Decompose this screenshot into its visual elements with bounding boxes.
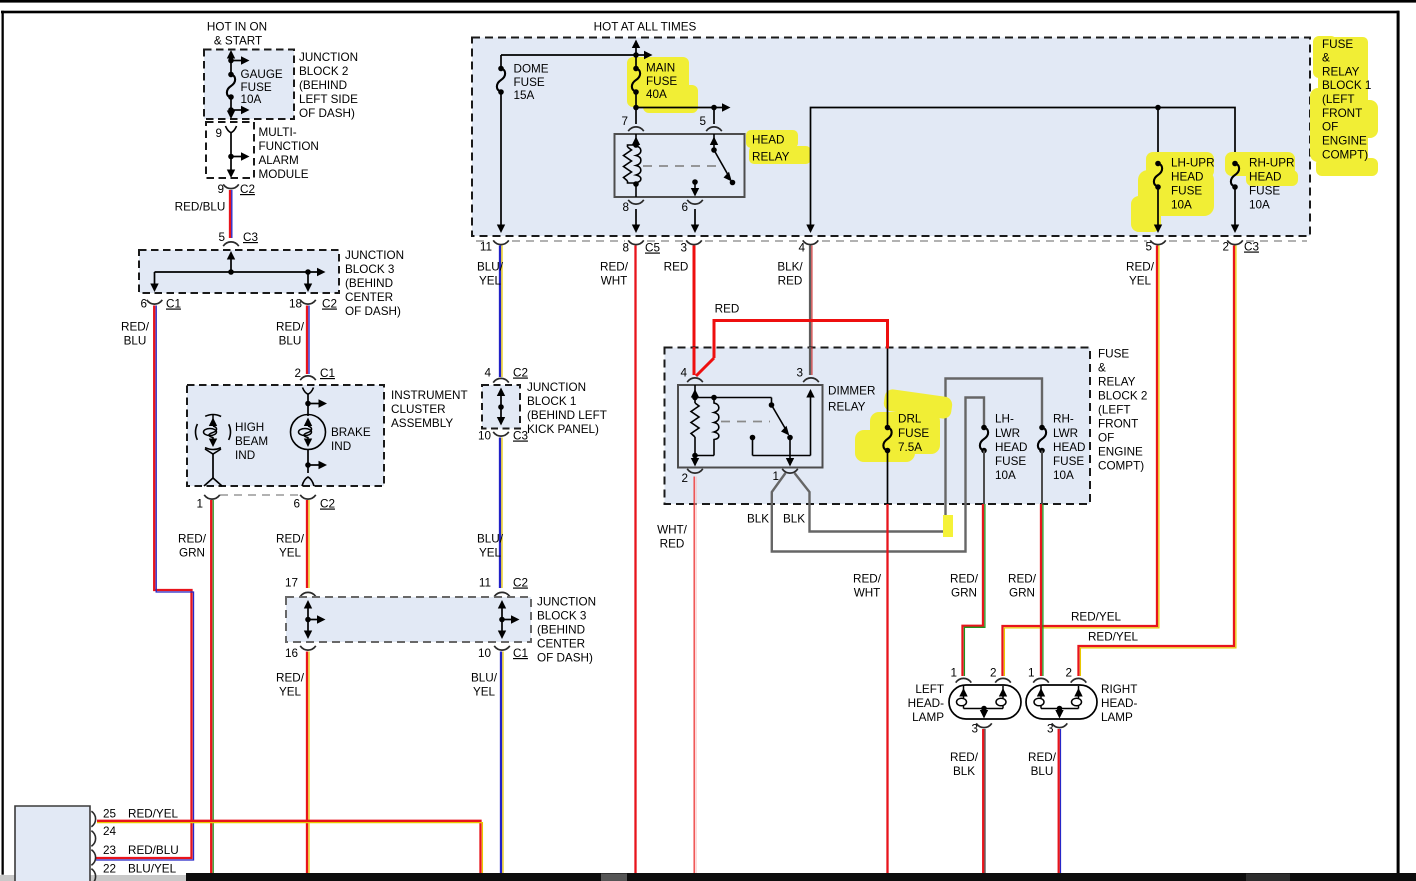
svg-text:ENGINE: ENGINE bbox=[1098, 446, 1143, 459]
svg-text:9: 9 bbox=[215, 127, 222, 140]
svg-text:25: 25 bbox=[103, 808, 117, 821]
svg-text:22: 22 bbox=[103, 863, 116, 876]
frame top border bbox=[1, 11, 1399, 14]
highlight leftover mark bbox=[943, 515, 953, 537]
svg-text:3: 3 bbox=[796, 367, 803, 380]
svg-text:C2: C2 bbox=[320, 498, 335, 511]
svg-text:FUSE: FUSE bbox=[514, 76, 545, 89]
svg-text:RED/: RED/ bbox=[276, 672, 305, 685]
svg-text:(BEHIND: (BEHIND bbox=[345, 277, 393, 290]
svg-text:WHT: WHT bbox=[601, 275, 628, 288]
connector C2 dashed line under cluster bbox=[220, 494, 299, 496]
svg-text:ALARM: ALARM bbox=[259, 154, 299, 167]
svg-text:1: 1 bbox=[950, 667, 957, 680]
svg-text:LH-UPR: LH-UPR bbox=[1171, 157, 1215, 170]
head relay pin 5 arc bbox=[706, 127, 722, 131]
svg-text:10A: 10A bbox=[241, 93, 262, 106]
svg-text:16: 16 bbox=[285, 647, 298, 660]
svg-text:MODULE: MODULE bbox=[259, 168, 309, 181]
svg-text:RED/: RED/ bbox=[600, 261, 629, 274]
junction block 3 upper box bbox=[139, 250, 339, 293]
svg-text:& START: & START bbox=[214, 35, 262, 48]
svg-text:YEL: YEL bbox=[279, 686, 302, 699]
fuse & relay block 1 box bbox=[472, 38, 1310, 237]
svg-text:YEL: YEL bbox=[479, 275, 502, 288]
svg-text:FUSE: FUSE bbox=[1098, 348, 1129, 361]
JB3 lower internal wire right bbox=[502, 604, 514, 634]
svg-text:YEL: YEL bbox=[279, 547, 302, 560]
svg-text:FUSE: FUSE bbox=[1322, 38, 1353, 51]
svg-text:RED/: RED/ bbox=[950, 751, 979, 764]
svg-text:3: 3 bbox=[1047, 723, 1054, 736]
svg-text:FUSE: FUSE bbox=[1171, 185, 1202, 198]
pin 22 bbox=[91, 869, 95, 881]
DRL fuse wire upper bbox=[887, 349, 889, 428]
svg-text:RED/BLU: RED/BLU bbox=[175, 201, 226, 214]
svg-text:RED: RED bbox=[778, 275, 803, 288]
highlight head relay label bbox=[746, 130, 811, 164]
svg-text:&: & bbox=[1098, 362, 1106, 375]
svg-text:HOT AT ALL TIMES: HOT AT ALL TIMES bbox=[594, 21, 697, 34]
svg-text:BLOCK 1: BLOCK 1 bbox=[527, 395, 576, 408]
wire RED segment inside block 2 bbox=[693, 347, 696, 375]
main fuse wire bbox=[636, 44, 723, 124]
svg-text:ASSEMBLY: ASSEMBLY bbox=[391, 417, 453, 430]
svg-text:LWR: LWR bbox=[1053, 427, 1078, 440]
instrument cluster assembly box bbox=[187, 385, 384, 486]
dome fuse symbol bbox=[497, 69, 505, 92]
svg-text:6: 6 bbox=[681, 201, 688, 214]
svg-text:CENTER: CENTER bbox=[537, 638, 585, 651]
JB1 internal wire bbox=[500, 391, 502, 421]
svg-text:6: 6 bbox=[140, 298, 147, 311]
pin 25 bbox=[91, 811, 95, 827]
svg-text:INSTRUMENT: INSTRUMENT bbox=[391, 389, 468, 402]
bus wire to upper head fuses bbox=[811, 108, 1236, 227]
wire RED/GRN (LH-LWR to left headlamp pin 1) bbox=[963, 504, 985, 676]
svg-text:LEFT SIDE: LEFT SIDE bbox=[299, 93, 358, 106]
svg-text:BLOCK 1: BLOCK 1 bbox=[1322, 79, 1371, 92]
bottom gray strip bbox=[0, 875, 186, 881]
svg-text:FRONT: FRONT bbox=[1098, 418, 1138, 431]
wire BLU/YEL (JB1 to JB3 lower pin 11) bbox=[500, 438, 502, 589]
svg-text:YEL: YEL bbox=[479, 547, 502, 560]
svg-text:CLUSTER: CLUSTER bbox=[391, 403, 446, 416]
svg-text:6: 6 bbox=[293, 498, 300, 511]
wire BLU/YEL (pin 11 to JB1) bbox=[500, 246, 502, 378]
svg-text:JUNCTION: JUNCTION bbox=[345, 249, 404, 262]
svg-text:40A: 40A bbox=[646, 88, 667, 101]
svg-text:RED/: RED/ bbox=[950, 573, 979, 586]
svg-text:4: 4 bbox=[484, 367, 491, 380]
svg-text:3: 3 bbox=[680, 242, 687, 255]
svg-text:RELAY: RELAY bbox=[828, 401, 866, 414]
svg-text:RED/: RED/ bbox=[121, 321, 150, 334]
svg-text:C2: C2 bbox=[513, 367, 528, 380]
svg-text:RED/: RED/ bbox=[276, 321, 305, 334]
svg-text:18: 18 bbox=[289, 298, 302, 311]
wire RED/BLU (right headlamp pin3 to bottom) bbox=[1059, 729, 1061, 873]
connector dashed line under block 1 bbox=[476, 240, 1307, 242]
svg-text:GRN: GRN bbox=[179, 547, 205, 560]
wire BLK right branch (pin1 to RH-LWR fuse) bbox=[795, 379, 1043, 532]
module internal wire bbox=[226, 126, 237, 133]
dimmer relay switch side bbox=[714, 392, 811, 462]
svg-text:BLK: BLK bbox=[783, 513, 805, 526]
svg-text:BLU: BLU bbox=[279, 335, 302, 348]
svg-text:7.5A: 7.5A bbox=[898, 441, 922, 454]
svg-text:BLU/: BLU/ bbox=[477, 533, 504, 546]
wire RED/YEL (pin16 to bottom) bbox=[307, 652, 309, 874]
svg-text:LWR: LWR bbox=[995, 427, 1020, 440]
left headlamp pin 3 bbox=[976, 723, 992, 727]
svg-text:FUSE: FUSE bbox=[1053, 455, 1084, 468]
svg-text:7: 7 bbox=[621, 115, 628, 128]
wire RED/BLU left branch (pin6 to lower left) bbox=[96, 306, 194, 861]
wire BLU/YEL (pin10 to bottom) bbox=[501, 652, 503, 874]
svg-text:C3: C3 bbox=[513, 430, 528, 443]
wire RED/YEL (pin 5 to left headlamp pin 2) bbox=[1003, 246, 1159, 677]
wire RED/WHT (DRL to bottom) bbox=[886, 504, 888, 873]
svg-text:BEAM: BEAM bbox=[235, 435, 268, 448]
svg-text:OF: OF bbox=[1098, 432, 1114, 445]
wire RED/GRN (pin1 to bottom) bbox=[211, 500, 213, 873]
svg-text:RELAY: RELAY bbox=[1098, 376, 1136, 389]
right headlamp pin 3 bbox=[1052, 723, 1068, 727]
svg-text:C1: C1 bbox=[166, 298, 181, 311]
svg-text:DRL: DRL bbox=[898, 413, 922, 426]
wire BLK/RED segment inside block 2 bbox=[810, 347, 812, 375]
highlight LH-UPR head fuse bbox=[1131, 152, 1214, 232]
wire RED (pin 3 to dimmer relay pin 4) bbox=[693, 246, 696, 376]
svg-text:RED/YEL: RED/YEL bbox=[1088, 631, 1139, 644]
svg-text:C3: C3 bbox=[243, 231, 258, 244]
svg-text:HEAD: HEAD bbox=[1053, 441, 1085, 454]
right headlamp connector bbox=[1026, 685, 1097, 719]
RH-UPR head fuse symbol bbox=[1231, 164, 1239, 187]
svg-text:FUSE: FUSE bbox=[995, 455, 1026, 468]
svg-text:5: 5 bbox=[699, 115, 706, 128]
svg-text:RED: RED bbox=[664, 261, 689, 274]
JB3 lower internal wire left bbox=[308, 604, 320, 634]
svg-text:10A: 10A bbox=[1249, 199, 1270, 212]
frame right border bbox=[1397, 11, 1400, 875]
svg-text:1: 1 bbox=[1028, 667, 1035, 680]
wire RED/GRN (RH-LWR to right headlamp pin 1) bbox=[1041, 504, 1043, 676]
svg-text:OF DASH): OF DASH) bbox=[537, 652, 593, 665]
wire WHT/RED (pin 2 to bottom) bbox=[694, 477, 696, 874]
head relay coil side bbox=[624, 134, 641, 197]
wire RED/WHT (pin 8 C5 to bottom) bbox=[634, 246, 636, 874]
svg-text:RH-UPR: RH-UPR bbox=[1249, 157, 1294, 170]
svg-text:DOME: DOME bbox=[514, 63, 549, 76]
svg-text:&: & bbox=[1322, 52, 1330, 65]
svg-text:BLOCK 2: BLOCK 2 bbox=[299, 65, 348, 78]
bottom black bar bbox=[186, 873, 1416, 881]
junction block 3 lower box bbox=[286, 597, 531, 642]
wire RED diagonal into pin 4 bbox=[696, 358, 714, 376]
junction block 2 box bbox=[204, 50, 294, 120]
svg-text:RED/: RED/ bbox=[853, 573, 882, 586]
wire RED/BLU (pin18 to cluster pin2) bbox=[307, 306, 309, 375]
svg-text:WHT: WHT bbox=[854, 587, 881, 600]
svg-text:5: 5 bbox=[218, 231, 225, 244]
fuse & relay block 2 box bbox=[665, 348, 1091, 505]
svg-text:GRN: GRN bbox=[1009, 587, 1035, 600]
svg-text:15A: 15A bbox=[514, 89, 535, 102]
highlight RH-UPR head fuse bbox=[1225, 152, 1298, 186]
svg-text:FUSE: FUSE bbox=[898, 427, 929, 440]
svg-text:HEAD-: HEAD- bbox=[1101, 697, 1137, 710]
svg-text:C2: C2 bbox=[322, 298, 337, 311]
svg-text:GAUGE: GAUGE bbox=[241, 68, 283, 81]
svg-text:BLK: BLK bbox=[747, 513, 769, 526]
svg-text:RELAY: RELAY bbox=[752, 151, 790, 164]
highlight fuse & relay block 1 label bbox=[1310, 36, 1378, 176]
svg-text:HEAD: HEAD bbox=[1171, 171, 1203, 184]
svg-text:C2: C2 bbox=[513, 577, 528, 590]
svg-text:DIMMER: DIMMER bbox=[828, 385, 875, 398]
head relay switch side bbox=[695, 134, 730, 190]
svg-text:LEFT: LEFT bbox=[915, 683, 944, 696]
top black bar bbox=[0, 0, 1416, 3]
LH-UPR head fuse symbol bbox=[1154, 164, 1162, 187]
svg-text:8: 8 bbox=[622, 242, 629, 255]
svg-text:10: 10 bbox=[478, 647, 492, 660]
svg-text:8: 8 bbox=[622, 201, 629, 214]
svg-text:BLU: BLU bbox=[124, 335, 147, 348]
svg-text:MAIN: MAIN bbox=[646, 62, 675, 75]
svg-text:2: 2 bbox=[1065, 667, 1072, 680]
svg-text:17: 17 bbox=[285, 577, 298, 590]
svg-text:4: 4 bbox=[680, 367, 687, 380]
head relay pin 7 arc bbox=[628, 127, 644, 131]
svg-text:RED: RED bbox=[715, 303, 740, 316]
svg-text:JUNCTION: JUNCTION bbox=[527, 381, 586, 394]
svg-text:FUNCTION: FUNCTION bbox=[259, 140, 319, 153]
svg-text:HEAD-: HEAD- bbox=[908, 697, 944, 710]
svg-text:C5: C5 bbox=[645, 242, 660, 255]
svg-text:FRONT: FRONT bbox=[1322, 107, 1362, 120]
svg-text:OF DASH): OF DASH) bbox=[345, 305, 401, 318]
svg-text:BLOCK 2: BLOCK 2 bbox=[1098, 390, 1147, 403]
svg-text:1: 1 bbox=[196, 498, 203, 511]
svg-text:KICK PANEL): KICK PANEL) bbox=[527, 423, 599, 436]
highlight main fuse bbox=[627, 57, 698, 113]
svg-text:BLU/: BLU/ bbox=[477, 261, 504, 274]
svg-text:RELAY: RELAY bbox=[1322, 66, 1360, 79]
svg-text:10A: 10A bbox=[1171, 199, 1192, 212]
left headlamp connector bbox=[949, 685, 1021, 719]
svg-text:24: 24 bbox=[103, 825, 117, 838]
svg-text:HEAD: HEAD bbox=[1249, 171, 1281, 184]
svg-text:COMPT): COMPT) bbox=[1098, 460, 1144, 473]
svg-text:RED/: RED/ bbox=[178, 533, 207, 546]
wire RED/YEL (pin 2 C3 to right headlamp pin 2) bbox=[1079, 246, 1236, 677]
svg-text:10: 10 bbox=[478, 430, 492, 443]
svg-text:CENTER: CENTER bbox=[345, 291, 393, 304]
svg-text:1: 1 bbox=[772, 470, 779, 483]
svg-text:JUNCTION: JUNCTION bbox=[537, 596, 596, 609]
dimmer relay coil side bbox=[691, 385, 719, 462]
head relay center dashed line bbox=[643, 165, 720, 167]
gauge fuse F1 wire bbox=[231, 54, 245, 112]
svg-text:11: 11 bbox=[480, 241, 492, 254]
svg-text:2: 2 bbox=[681, 472, 688, 485]
LH-LWR head fuse symbol bbox=[980, 428, 988, 451]
svg-text:FUSE: FUSE bbox=[646, 75, 677, 88]
svg-text:HIGH: HIGH bbox=[235, 421, 264, 434]
svg-text:MULTI-: MULTI- bbox=[259, 126, 297, 139]
svg-text:10A: 10A bbox=[995, 469, 1016, 482]
svg-text:RED/: RED/ bbox=[276, 533, 305, 546]
junction block 1 box bbox=[482, 385, 520, 429]
svg-text:C3: C3 bbox=[1244, 241, 1259, 254]
multi-function alarm module box bbox=[206, 122, 254, 178]
brake ind lamp B1 bbox=[291, 388, 328, 487]
svg-text:OF: OF bbox=[1322, 121, 1338, 134]
wire RED/YEL pin25 horizontal to x481 then down bbox=[97, 821, 482, 873]
svg-text:BLK: BLK bbox=[953, 765, 975, 778]
svg-text:JUNCTION: JUNCTION bbox=[299, 51, 358, 64]
svg-text:C2: C2 bbox=[240, 183, 255, 196]
svg-text:(BEHIND: (BEHIND bbox=[299, 79, 347, 92]
JB3 internal wires bbox=[155, 255, 321, 285]
wire RED/BLK (left headlamp pin3 to bottom) bbox=[983, 729, 985, 873]
svg-text:(LEFT: (LEFT bbox=[1322, 93, 1354, 106]
svg-text:YEL: YEL bbox=[1129, 275, 1152, 288]
svg-text:RED/: RED/ bbox=[1008, 573, 1037, 586]
head relay box bbox=[615, 134, 745, 197]
svg-text:GRN: GRN bbox=[951, 587, 977, 600]
svg-text:RED/BLU: RED/BLU bbox=[128, 844, 179, 857]
svg-text:IND: IND bbox=[235, 449, 255, 462]
svg-text:BLOCK 3: BLOCK 3 bbox=[537, 610, 586, 623]
pin 24 bbox=[91, 831, 95, 847]
wire RED/BLU (module to JB3) bbox=[230, 190, 232, 238]
svg-text:HEAD: HEAD bbox=[995, 441, 1027, 454]
dimmer relay box bbox=[678, 385, 823, 468]
svg-text:23: 23 bbox=[103, 844, 116, 857]
dome fuse feed wire bbox=[501, 55, 636, 226]
svg-text:(BEHIND LEFT: (BEHIND LEFT bbox=[527, 409, 607, 422]
pin 23 bbox=[91, 850, 95, 866]
wire RED/YEL (pin6 to JB3 lower) bbox=[307, 500, 309, 588]
svg-text:YEL: YEL bbox=[473, 686, 496, 699]
left headlamp bulbs bbox=[957, 686, 1007, 712]
svg-text:C1: C1 bbox=[320, 367, 335, 380]
bottom scrollbar thumb 2 bbox=[1246, 874, 1290, 881]
svg-text:BLOCK 3: BLOCK 3 bbox=[345, 263, 394, 276]
svg-text:RED: RED bbox=[660, 538, 685, 551]
wire BLK/RED (pin 4 to dimmer relay pin 3) bbox=[810, 246, 812, 376]
svg-text:2: 2 bbox=[294, 367, 301, 380]
svg-text:LAMP: LAMP bbox=[1101, 711, 1133, 724]
svg-text:10A: 10A bbox=[1053, 469, 1074, 482]
svg-text:FUSE: FUSE bbox=[1249, 185, 1280, 198]
svg-text:RIGHT: RIGHT bbox=[1101, 683, 1137, 696]
svg-text:BLU/: BLU/ bbox=[471, 672, 498, 685]
svg-text:RED/: RED/ bbox=[1028, 751, 1057, 764]
gauge fuse symbol bbox=[227, 75, 235, 98]
RH-LWR head fuse symbol bbox=[1038, 428, 1046, 451]
svg-text:ENGINE: ENGINE bbox=[1322, 135, 1367, 148]
svg-text:RED/YEL: RED/YEL bbox=[1071, 611, 1122, 624]
right headlamp bulbs bbox=[1034, 686, 1082, 712]
svg-text:LAMP: LAMP bbox=[912, 711, 944, 724]
svg-text:C1: C1 bbox=[513, 647, 528, 660]
svg-text:3: 3 bbox=[971, 723, 978, 736]
svg-text:IND: IND bbox=[331, 440, 351, 453]
svg-text:HOT IN ON: HOT IN ON bbox=[207, 21, 267, 34]
svg-text:RED/: RED/ bbox=[1126, 261, 1155, 274]
svg-text:COMPT): COMPT) bbox=[1322, 149, 1368, 162]
svg-text:(LEFT: (LEFT bbox=[1098, 404, 1130, 417]
svg-text:BRAKE: BRAKE bbox=[331, 426, 371, 439]
svg-text:BLU/YEL: BLU/YEL bbox=[128, 863, 177, 876]
svg-text:RH-: RH- bbox=[1053, 413, 1074, 426]
svg-text:HEAD: HEAD bbox=[752, 134, 784, 147]
frame left border bbox=[2, 11, 4, 875]
wire BLK left branch (pin1 to LH-LWR fuse) bbox=[772, 398, 984, 552]
main fuse symbol bbox=[632, 69, 640, 92]
svg-text:BLK/: BLK/ bbox=[777, 261, 803, 274]
wire RED horizontal (to DRL fuse) bbox=[714, 321, 888, 359]
svg-text:(BEHIND: (BEHIND bbox=[537, 624, 585, 637]
svg-text:2: 2 bbox=[990, 667, 997, 680]
svg-text:RED/YEL: RED/YEL bbox=[128, 808, 179, 821]
svg-text:LH-: LH- bbox=[995, 413, 1014, 426]
svg-text:11: 11 bbox=[479, 577, 491, 590]
dimmer relay center dashed line bbox=[721, 421, 770, 423]
DRL fuse symbol bbox=[883, 428, 891, 451]
highlight DRL fuse bbox=[855, 388, 953, 462]
svg-text:OF DASH): OF DASH) bbox=[299, 107, 355, 120]
bottom left module box bbox=[15, 806, 90, 881]
svg-text:WHT/: WHT/ bbox=[657, 524, 688, 537]
high beam ind lamp bbox=[196, 415, 231, 487]
DRL fuse wire lower bbox=[887, 451, 889, 505]
bottom scrollbar thumb bbox=[601, 874, 627, 881]
svg-text:BLU: BLU bbox=[1031, 765, 1054, 778]
